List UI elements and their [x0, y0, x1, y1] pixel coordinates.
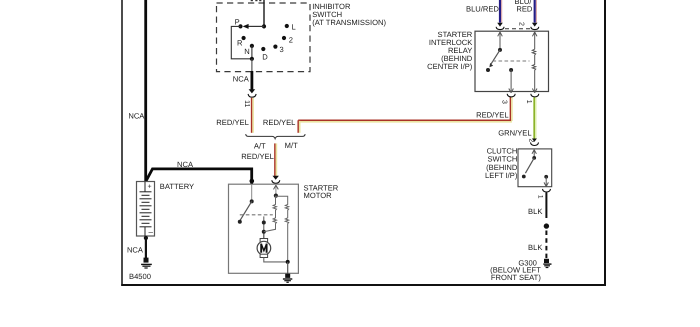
starter motor box — [229, 184, 299, 273]
inhibitor switch label — [312, 2, 386, 27]
svg-text:11: 11 — [243, 100, 250, 107]
ground below battery — [141, 258, 152, 268]
battery internal stub top — [144, 182, 146, 192]
relay coil — [532, 49, 537, 93]
inhibitor switch dashed box — [217, 3, 311, 72]
wire RED/YEL from C11 down (A/T) — [251, 98, 253, 133]
clutch switch internals — [532, 150, 536, 158]
inhibitor switch arm with arrow to P — [248, 25, 264, 27]
node junction below N — [250, 57, 254, 61]
svg-text:MOTOR: MOTOR — [304, 191, 333, 200]
svg-text:R: R — [237, 39, 243, 48]
svg-text:FRONT SEAT): FRONT SEAT) — [491, 273, 541, 282]
wire into inhibitor switch from top — [263, 0, 265, 26]
relay dashed link — [493, 60, 530, 62]
svg-text:BLK: BLK — [528, 243, 542, 252]
contact 2 — [282, 36, 286, 40]
svg-text:L: L — [292, 22, 296, 31]
svg-text:1: 1 — [525, 100, 532, 104]
svg-text:NCA: NCA — [177, 160, 194, 169]
clutch switch box — [518, 149, 552, 187]
contact D — [261, 47, 265, 51]
relay output contact — [509, 68, 513, 72]
battery internal stub bottom — [144, 227, 146, 236]
svg-text:A/T: A/T — [254, 142, 266, 151]
connector arrow into clutch switch connector — [532, 139, 537, 142]
svg-text:RED/YEL: RED/YEL — [476, 110, 509, 119]
cut-off text fragment above inhibitor box — [251, 0, 262, 1]
svg-text:RED/YEL: RED/YEL — [241, 152, 274, 161]
wire BLK dashed to ground — [545, 231, 547, 259]
wire RED/YEL horizontal run to M/T brace — [298, 119, 511, 121]
relay bottom connector cups — [507, 94, 515, 97]
svg-text:P: P — [235, 17, 240, 26]
svg-text:(AT TRANSMISSION): (AT TRANSMISSION) — [312, 18, 386, 27]
svg-text:NCA: NCA — [233, 75, 250, 84]
svg-text:CENTER I/P): CENTER I/P) — [427, 62, 473, 71]
contact N — [250, 44, 254, 48]
node at starter feed — [250, 179, 255, 184]
battery plates — [140, 192, 152, 227]
splice node — [544, 223, 549, 228]
svg-text:+: + — [148, 184, 152, 191]
starter fixed contact stub — [263, 216, 265, 238]
svg-text:2: 2 — [527, 139, 534, 143]
svg-text:BLK: BLK — [528, 207, 542, 216]
svg-text:GRN/YEL: GRN/YEL — [498, 128, 531, 137]
svg-text:M/T: M/T — [285, 141, 298, 150]
connector cups at relay top — [496, 27, 504, 30]
svg-text:D: D — [262, 52, 268, 61]
wire BLU/RED left — [499, 0, 501, 23]
svg-text:3: 3 — [280, 45, 284, 54]
svg-text:–: – — [149, 228, 154, 237]
brace joining A/T and M/T — [246, 134, 305, 139]
wire GRN/YEL from relay pin 1 — [533, 97, 535, 138]
ground below starter motor — [283, 274, 292, 283]
page border left — [121, 0, 123, 286]
svg-text:B4500: B4500 — [129, 272, 151, 281]
contact R — [242, 36, 246, 40]
NCA wire horizontal battery to starter — [146, 169, 252, 184]
page border right — [604, 0, 606, 286]
svg-text:RED/YEL: RED/YEL — [263, 118, 296, 127]
wire RED/YEL from brace to starter S terminal — [274, 143, 276, 178]
svg-text:BLU/RED: BLU/RED — [466, 5, 499, 14]
svg-text:3: 3 — [501, 100, 508, 104]
svg-text:2: 2 — [518, 22, 525, 26]
svg-text:NCA: NCA — [128, 111, 145, 120]
battery negative wire to ground — [145, 236, 147, 258]
connector arrow into C11 — [249, 89, 256, 93]
relay switch — [498, 48, 502, 52]
wire RED/YEL from relay pin 3: vertical drop — [509, 97, 511, 121]
NCA wire left vertical (battery feed) — [144, 0, 147, 181]
node pivot of inhibitor arm — [262, 24, 266, 28]
contact P — [238, 24, 242, 28]
svg-text:1: 1 — [536, 195, 543, 199]
wire frame from P to N junction — [231, 26, 252, 58]
svg-text:RED: RED — [516, 5, 533, 14]
svg-text:RED/YEL: RED/YEL — [216, 118, 249, 127]
wire M/T drop into brace — [297, 120, 299, 133]
motor ground wire — [264, 258, 288, 262]
wire BLU/RED right — [534, 0, 536, 23]
battery box — [137, 182, 155, 237]
starter interlock relay box — [475, 31, 549, 91]
starter B feed inside box — [251, 184, 253, 201]
contact L — [285, 24, 289, 28]
connector cup 11 — [248, 94, 256, 97]
connector arrows into relay — [497, 23, 503, 27]
solenoid pull-in coil — [264, 196, 277, 232]
starter switch arm — [240, 201, 252, 220]
svg-text:N: N — [244, 47, 249, 56]
contact 3 — [273, 45, 277, 49]
mechanical dashed link — [240, 214, 273, 216]
wire BLK solid — [545, 193, 547, 219]
svg-text:LEFT I/P): LEFT I/P) — [485, 171, 518, 180]
relay pin arrows inside top — [498, 32, 503, 50]
connector cup at starter S — [272, 180, 280, 183]
connector arrow at starter S — [273, 176, 279, 180]
motor M — [263, 234, 265, 239]
svg-text:BATTERY: BATTERY — [160, 182, 194, 191]
solenoid hold-in coil branch — [276, 196, 289, 262]
wire from junction out of inhibitor box — [251, 59, 253, 72]
solenoid feed stub inside box — [275, 185, 277, 196]
svg-text:NCA: NCA — [127, 246, 144, 255]
ground G300 — [543, 259, 551, 268]
connector cup below clutch switch — [543, 189, 551, 192]
page border bottom — [121, 284, 606, 286]
wire N to junction — [251, 46, 253, 59]
svg-text:2: 2 — [289, 36, 293, 45]
dashed connector link with pin 2 — [505, 28, 530, 30]
